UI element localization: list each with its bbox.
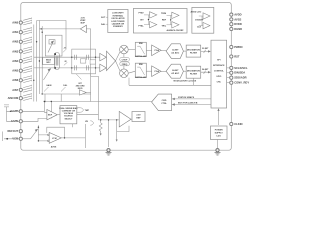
wires in U4	[199, 16, 203, 26]
wire (pin CAPN to buffer input)	[23, 102, 52, 122]
switch labels GAIN/CAL with arrows	[46, 84, 68, 87]
svg-text:AIN5: AIN5	[12, 69, 18, 73]
anti-alias filter box (ADC2)	[135, 63, 146, 77]
oscillator block U2 (low-drift internal oscillator)	[108, 10, 128, 33]
svg-text:DAL: DAL	[101, 23, 106, 26]
wire (PGA to modulator, ADC2)	[161, 71, 166, 73]
input mux switches for AIN4	[23, 56, 32, 63]
svg-text:AVSS: AVSS	[234, 17, 241, 21]
op-amp A12 monitor amp	[79, 90, 86, 95]
sub-box inside U5	[49, 40, 55, 44]
wire (U7 bottom elbow down to bandgap wire)	[91, 74, 99, 120]
current source I2 (arrow down)	[116, 120, 118, 140]
svg-text:VOLTAGE: VOLTAGE	[64, 112, 74, 115]
junction on VREFIN wire	[41, 28, 42, 29]
svg-text:VCM: VCM	[52, 138, 57, 140]
wire stubs into oscillator	[106, 17, 108, 24]
delta-sigma modulator hexagon ADC2	[166, 64, 183, 78]
svg-text:TMP: TMP	[85, 110, 90, 112]
svg-text:PGA: PGA	[155, 70, 160, 73]
svg-text:24-BIT: 24-BIT	[172, 69, 179, 72]
wire (A11 to U10)	[57, 114, 60, 116]
switch SW2 below U5	[44, 69, 51, 80]
pin AVSS (bottom ground)	[107, 149, 110, 152]
junction dots on mux rails	[33, 32, 46, 103]
svg-text:EMI: EMI	[139, 64, 143, 66]
svg-text:ANTIALIAS: ANTIALIAS	[135, 76, 147, 79]
labels in U3	[138, 11, 167, 27]
capacitor C2	[75, 65, 77, 70]
svg-text:32-BIT: 32-BIT	[172, 49, 179, 51]
svg-text:CTRL: CTRL	[161, 103, 167, 105]
decimation filter box (ADC1)	[186, 45, 201, 57]
wire (SPI to U9, input 2) with arrowhead	[175, 104, 212, 106]
wire (rail 2 top to x=66)	[37, 21, 66, 49]
pin SCLK/SCL	[230, 66, 233, 69]
pin AVDD	[230, 13, 233, 16]
svg-text:FREQ: FREQ	[122, 64, 128, 66]
pin AIN0	[19, 21, 22, 24]
svg-text:VB: VB	[85, 121, 88, 123]
wire (long rail y=101.5 to command block)	[45, 101, 152, 103]
svg-text:TRIM: TRIM	[161, 13, 166, 15]
capacitor C1	[75, 55, 77, 60]
data bus wire to SPI (32-BIT) with arrowhead	[201, 50, 209, 53]
svg-text:INTERFACE: INTERFACE	[213, 64, 225, 67]
pin CONV_RDY	[230, 81, 233, 84]
svg-text:PWDN: PWDN	[234, 45, 242, 49]
svg-text:BUF: BUF	[81, 22, 86, 24]
svg-text:CONTROL: CONTROL	[214, 71, 225, 73]
svg-text:AVSS: AVSS	[51, 146, 57, 149]
junction dots in U3	[148, 19, 149, 20]
svg-text:DGND: DGND	[234, 27, 242, 31]
svg-text:REF: REF	[162, 20, 167, 22]
op-amp A6 (trim buffer)	[172, 12, 179, 18]
mixer X2 (chopper, ADC2 path)	[120, 69, 129, 78]
wire (U12 to DGND pin)	[217, 140, 219, 149]
svg-text:LDO: LDO	[217, 135, 222, 137]
svg-text:24-BIT: 24-BIT	[202, 68, 209, 71]
pin AIN3	[19, 50, 22, 53]
input mux switches for AIN3	[23, 46, 32, 53]
svg-text:BIAS: BIAS	[46, 59, 52, 62]
svg-text:CHOP: CHOP	[122, 59, 128, 61]
svg-text:FILTER: FILTER	[190, 74, 198, 76]
op-amp A11 sensor-bias buffer	[47, 110, 57, 120]
pin AIN2	[19, 40, 22, 43]
op-amp A1 (input buffer +)	[100, 53, 107, 61]
svg-text:GPIO: GPIO	[216, 76, 221, 78]
wire (pin CAPP to buffer input)	[23, 102, 47, 113]
capacitor C4	[87, 65, 89, 70]
svg-text:AINCOM: AINCOM	[8, 96, 19, 100]
pin DVDD	[230, 23, 233, 26]
svg-text:RST: RST	[234, 54, 240, 58]
svg-text:CRC: CRC	[217, 82, 222, 84]
pin CAPN	[19, 120, 22, 123]
labels in U4	[190, 11, 201, 29]
svg-text:SRC: SRC	[46, 62, 51, 64]
delta-sigma modulator hexagon ADC1	[166, 44, 183, 59]
mux bus rail 4	[41, 26, 43, 94]
data bus wire to SPI (24-BIT) with arrowhead	[201, 71, 209, 74]
junction dot in U4	[201, 19, 202, 20]
wire (A14 feedback loop)	[47, 127, 65, 138]
wire stubs to chop clock ovals	[123, 54, 125, 69]
svg-text:STANDBY: STANDBY	[113, 25, 124, 28]
mux bus rail 3	[38, 21, 40, 95]
input mux switches for AIN0	[23, 18, 32, 25]
wire (PGA negative input)	[34, 67, 100, 69]
svg-text:AIN7: AIN7	[12, 88, 18, 92]
svg-text:PTAL: PTAL	[138, 24, 144, 27]
wires joining buffer inputs in U3	[144, 15, 172, 25]
switch SW3 below U7	[76, 74, 82, 80]
anti-alias filter box (ADC1)	[135, 42, 146, 56]
svg-text:ΔΣ ADC: ΔΣ ADC	[171, 51, 179, 54]
svg-text:REFOUT: REFOUT	[8, 129, 19, 133]
svg-text:EMI: EMI	[139, 43, 143, 45]
svg-text:32-BIT: 32-BIT	[202, 48, 209, 50]
wire (pin VCM to switch)	[23, 138, 31, 140]
svg-text:PGA: PGA	[155, 49, 160, 52]
pin DGND	[230, 27, 233, 30]
chop clock oval 1	[120, 57, 130, 61]
wire (feedback loop below A13)	[117, 126, 129, 132]
wire (A14 output)	[61, 137, 85, 139]
wire (PGA out to chopper X1)	[116, 52, 120, 61]
svg-text:DUAL SENSE BIAS: DUAL SENSE BIAS	[59, 107, 78, 110]
op-amp A3 reference buffer (points left)	[80, 25, 86, 32]
pin DGND (bottom ground)	[216, 149, 219, 152]
svg-text:AIN0: AIN0	[12, 21, 18, 25]
svg-text:SDO/ADR: SDO/ADR	[234, 76, 246, 80]
op-amp A4 (PTAT buffer)	[150, 12, 157, 18]
switch arrows J1/J2 right of U5	[63, 49, 67, 66]
svg-text:AIN2: AIN2	[12, 40, 18, 44]
input mux switches for AIN5	[23, 66, 32, 73]
svg-text:FILTER: FILTER	[190, 52, 198, 54]
op-amp A14 VCM buffer with input bubbles	[48, 133, 62, 144]
pin AIN4	[19, 59, 22, 62]
op-amp A13 bandgap amp	[119, 111, 131, 127]
label for reference buffer	[80, 17, 86, 24]
wire (X2 to ADC2 filter)	[128, 71, 135, 73]
svg-text:LOW DRIFT: LOW DRIFT	[112, 13, 124, 15]
sensor bias switch box U5	[45, 35, 62, 56]
svg-text:TRIL: TRIL	[161, 26, 166, 28]
svg-text:SCLK/SCL: SCLK/SCL	[234, 66, 248, 70]
cap select box 2 (VCM)	[90, 60, 95, 64]
svg-text:DECIMATION: DECIMATION	[187, 48, 201, 51]
svg-text:AVDD LDO: AVDD LDO	[190, 11, 201, 14]
input mux switches for AINCOM	[23, 93, 32, 100]
pin SDO/ADR	[230, 76, 233, 79]
svg-text:LADDER OR: LADDER OR	[112, 23, 125, 26]
op-amp A5	[150, 21, 157, 27]
capacitor C3	[87, 55, 89, 60]
wire (bandgap input rail)	[98, 119, 119, 121]
svg-text:AIN4: AIN4	[12, 59, 18, 63]
svg-text:SELECT: SELECT	[64, 118, 73, 120]
wire (U10 bottom stub)	[71, 124, 73, 127]
switched-capacitor network box U7	[72, 49, 96, 74]
pin CAPP	[19, 110, 22, 113]
SPI interface block U8	[211, 40, 227, 108]
svg-text:BOX FOR LANCH B: BOX FOR LANCH B	[178, 102, 198, 105]
svg-text:SOT: SOT	[101, 17, 106, 19]
wire (ref buffer output, turns down)	[86, 29, 90, 93]
input mux switches for AIN6	[23, 75, 32, 82]
junction dots on U7	[71, 57, 96, 69]
svg-text:CAL: CAL	[63, 84, 68, 87]
wire (filter to PGA, ADC2)	[146, 70, 151, 72]
pin AINCOM	[19, 97, 22, 100]
wire (PGA to modulator, ADC1)	[161, 50, 166, 52]
2.5V reference box U11	[132, 112, 145, 122]
svg-text:REF: REF	[136, 117, 141, 119]
junction dots on bandgap rail	[100, 119, 101, 120]
wire (A13 to U11)	[131, 118, 132, 120]
svg-text:ALWAYS-ON REF: ALWAYS-ON REF	[166, 29, 184, 32]
resistor R1 (bias resistor)	[99, 120, 102, 134]
ground symbol at AVSS	[106, 153, 112, 155]
svg-text:STATUS SWAPS: STATUS SWAPS	[178, 96, 195, 99]
wire (vertical connectors to rails)	[45, 94, 61, 102]
op-amp A8 (AVDD monitor)	[203, 13, 210, 19]
wire (U12 to SPI block) with arrowhead	[218, 111, 220, 126]
pin PWDN	[230, 45, 233, 48]
junction dot at A14 output	[64, 137, 65, 138]
wire (modulator clock from SPI block)	[129, 78, 211, 86]
op-amp A7	[172, 22, 179, 28]
current source I1 (burnout source capsule)	[55, 53, 60, 70]
chip outline U1 (ADC IC boundary)	[21, 2, 232, 150]
svg-text:DIN/SDA: DIN/SDA	[234, 71, 245, 75]
junction dots at rail y=101.5	[44, 101, 45, 102]
wire (to AVSS ground pin)	[108, 120, 110, 147]
input mux switches for AIN1	[23, 27, 32, 34]
wire (PGA positive input)	[34, 56, 100, 58]
op-amp A10 PGA output stage	[107, 51, 116, 71]
svg-text:CMD: CMD	[162, 100, 167, 102]
pin VCM	[19, 137, 22, 140]
wire (modulator to decimation filter, ADC2)	[183, 70, 186, 72]
switch SW4 (VCM input)	[31, 130, 38, 139]
svg-text:SPI: SPI	[217, 60, 221, 62]
pin RST	[230, 55, 233, 58]
supply monitor block U4	[192, 7, 214, 33]
pin REFOUT	[19, 130, 22, 133]
pin AIN7	[19, 88, 22, 91]
svg-text:CONV_RDY: CONV_RDY	[234, 81, 249, 85]
modulator text label (2nd order)	[76, 83, 86, 90]
wire (modulator to decimation filter, ADC1)	[183, 50, 186, 52]
wire (PGA out to chopper X2)	[116, 61, 120, 71]
svg-text:OSCILLATOR: OSCILLATOR	[111, 17, 125, 20]
switch SW1 inside U5	[48, 41, 54, 53]
PGA amp triangle (ADC2)	[152, 66, 161, 77]
wire (U10 output to bandgap rail)	[77, 114, 99, 116]
cap select box 1	[80, 59, 85, 63]
svg-text:AIN3: AIN3	[12, 49, 18, 53]
input mux switches for AIN2	[23, 37, 32, 44]
svg-text:ΔΣ ADC: ΔΣ ADC	[171, 72, 179, 75]
decimation filter box (ADC2)	[186, 66, 201, 78]
sensor bias source block U10	[60, 106, 77, 124]
command/control pentagon U9	[152, 94, 172, 111]
chop clock oval 2	[120, 62, 130, 66]
mux bus rail 1	[33, 25, 35, 102]
bias source text box U6	[43, 57, 55, 64]
wire (filter to PGA, ADC1)	[146, 49, 151, 51]
svg-text:2.5V: 2.5V	[136, 114, 141, 116]
svg-text:PTAT: PTAT	[138, 11, 144, 14]
PGA amp triangle (ADC1)	[152, 45, 161, 56]
svg-text:AIN1: AIN1	[12, 30, 18, 34]
svg-text:AVDD: AVDD	[234, 13, 241, 17]
external sensor symbol at pin VCM	[3, 132, 19, 142]
power supply / LDO block U12	[211, 126, 228, 140]
wire (VCM amp input rail)	[38, 125, 47, 141]
pin DIN/SDA	[230, 71, 233, 74]
pin CLKIN	[230, 122, 233, 125]
mux bus rail 2	[36, 21, 38, 102]
pin AVSS	[230, 18, 233, 21]
wire (mux to reference buffer, node VREFIN)	[39, 28, 80, 30]
TMP output bracket	[77, 108, 84, 112]
input mux switches for AIN7	[23, 85, 32, 92]
junction dots on VCM rail	[38, 127, 39, 128]
svg-text:ANTIALIAS: ANTIALIAS	[135, 55, 147, 58]
svg-text:CLKIN: CLKIN	[234, 122, 242, 126]
pin AIN1	[19, 31, 22, 34]
labels in chop ovals	[122, 59, 128, 66]
ground symbol at DGND	[215, 153, 221, 155]
svg-text:POWER: POWER	[215, 129, 223, 131]
reference buffer block U3 (always-on reference)	[133, 9, 187, 34]
wire (horizontal rail y=94)	[42, 93, 90, 95]
wire (A14 output vertical to border)	[84, 124, 86, 148]
wire (X1 to ADC1 filter)	[128, 49, 135, 51]
wire (A12 output to rail)	[86, 93, 91, 102]
svg-text:DECIMATION: DECIMATION	[187, 70, 201, 73]
wire (decimation filter 2 to clock wire)	[193, 78, 195, 85]
svg-text:DVDD: DVDD	[234, 22, 242, 26]
svg-text:CLK: CLK	[197, 27, 202, 29]
pin AIN6	[19, 79, 22, 82]
labels on U9 input wires	[178, 96, 198, 105]
svg-text:AIN6: AIN6	[12, 78, 18, 82]
svg-text:DVDD: DVDD	[195, 20, 201, 22]
op-amp A9 (DVDD monitor)	[203, 22, 210, 28]
oscillator input labels SOT/DAL	[101, 17, 106, 26]
pin AIN5	[19, 69, 22, 72]
svg-text:INTERNAL: INTERNAL	[113, 14, 124, 17]
wire (SPI to U9, input 1) with arrowhead	[175, 98, 212, 100]
capacitor C5 (external reference cap)	[4, 105, 19, 121]
op-amp A2 (input buffer -)	[100, 64, 107, 72]
svg-text:SUPPLY: SUPPLY	[215, 132, 224, 134]
svg-text:LOW POWER: LOW POWER	[111, 21, 125, 23]
VBIAS output bracket	[90, 121, 93, 125]
mixer X1 (chopper, ADC1 path)	[120, 45, 129, 54]
svg-text:GAIN: GAIN	[46, 84, 52, 87]
